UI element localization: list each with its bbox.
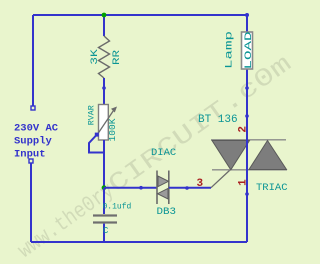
svg-text:RVAR: RVAR (87, 105, 97, 125)
wiper terminal dot (95, 133, 99, 137)
svg-text:Input: Input (14, 149, 46, 161)
triac left triangle (212, 141, 250, 170)
wire pot to junction (103, 140, 105, 188)
node corner top right dot (245, 13, 249, 17)
svg-text:Lamp: Lamp (224, 31, 236, 69)
diac lower triangle (158, 188, 169, 199)
diac DB3 right bar (168, 171, 170, 205)
wire top right into load (246, 15, 248, 32)
wire wiper loop (89, 135, 104, 153)
wire left vertical upper (32, 15, 34, 106)
triac gate lead (211, 170, 230, 188)
svg-text:1: 1 (238, 179, 250, 186)
svg-text:TRIAC: TRIAC (256, 182, 288, 194)
svg-text:3: 3 (197, 178, 204, 190)
diac DB3 left bar (156, 171, 158, 205)
node dot (247,88) (245, 86, 249, 90)
wire bottom horizontal (31, 241, 247, 243)
svg-text:0.1ufd: 0.1ufd (103, 203, 132, 212)
svg-text:LOAD: LOAD (244, 31, 255, 69)
potentiometer RVAR body (99, 105, 109, 141)
triac BT136 top line (211, 139, 286, 141)
wire load to triac (246, 69, 248, 194)
wire left vertical lower (30, 163, 32, 242)
wire right vertical lower (246, 194, 248, 242)
node dot (187,187.5) (185, 186, 189, 190)
node dot (141,187.5) (139, 186, 143, 190)
svg-text:Supply: Supply (14, 136, 53, 148)
svg-text:3K: 3K (89, 48, 101, 64)
node junction top (green) (102, 13, 107, 18)
svg-text:230V AC: 230V AC (14, 123, 59, 135)
svg-text:DB3: DB3 (157, 206, 177, 218)
svg-text:DIAC: DIAC (151, 147, 176, 159)
node dot (247,194) (245, 192, 249, 196)
capacitor C plates (93, 214, 117, 216)
triac bottom line (212, 169, 287, 171)
wire resistor to pot (103, 78, 105, 105)
terminal input bottom (29, 159, 33, 163)
potentiometer wiper arrow (97, 111, 114, 136)
watermark www.theoryCIRCUIT.com (12, 49, 297, 264)
diac upper triangle (158, 176, 169, 187)
resistor RR zigzag (99, 36, 110, 78)
wire diac to gate (169, 187, 211, 189)
wire top horizontal (33, 14, 247, 16)
load box (242, 32, 253, 69)
node dot (104,88) (102, 86, 106, 90)
svg-text:C: C (103, 226, 109, 236)
node junction mid (green) (102, 185, 107, 190)
triac right triangle (249, 141, 287, 170)
wire capacitor to bottom (103, 224, 105, 242)
wire junction to capacitor (103, 188, 105, 214)
svg-text:2: 2 (238, 126, 250, 133)
svg-text:BT 136: BT 136 (198, 114, 238, 126)
wire junction to diac (104, 187, 157, 189)
wire resistor top lead (103, 15, 105, 36)
terminal input top (31, 106, 35, 110)
svg-text:RR: RR (111, 49, 123, 65)
svg-text:100K: 100K (108, 118, 118, 142)
node dot (247,116) (245, 114, 249, 118)
